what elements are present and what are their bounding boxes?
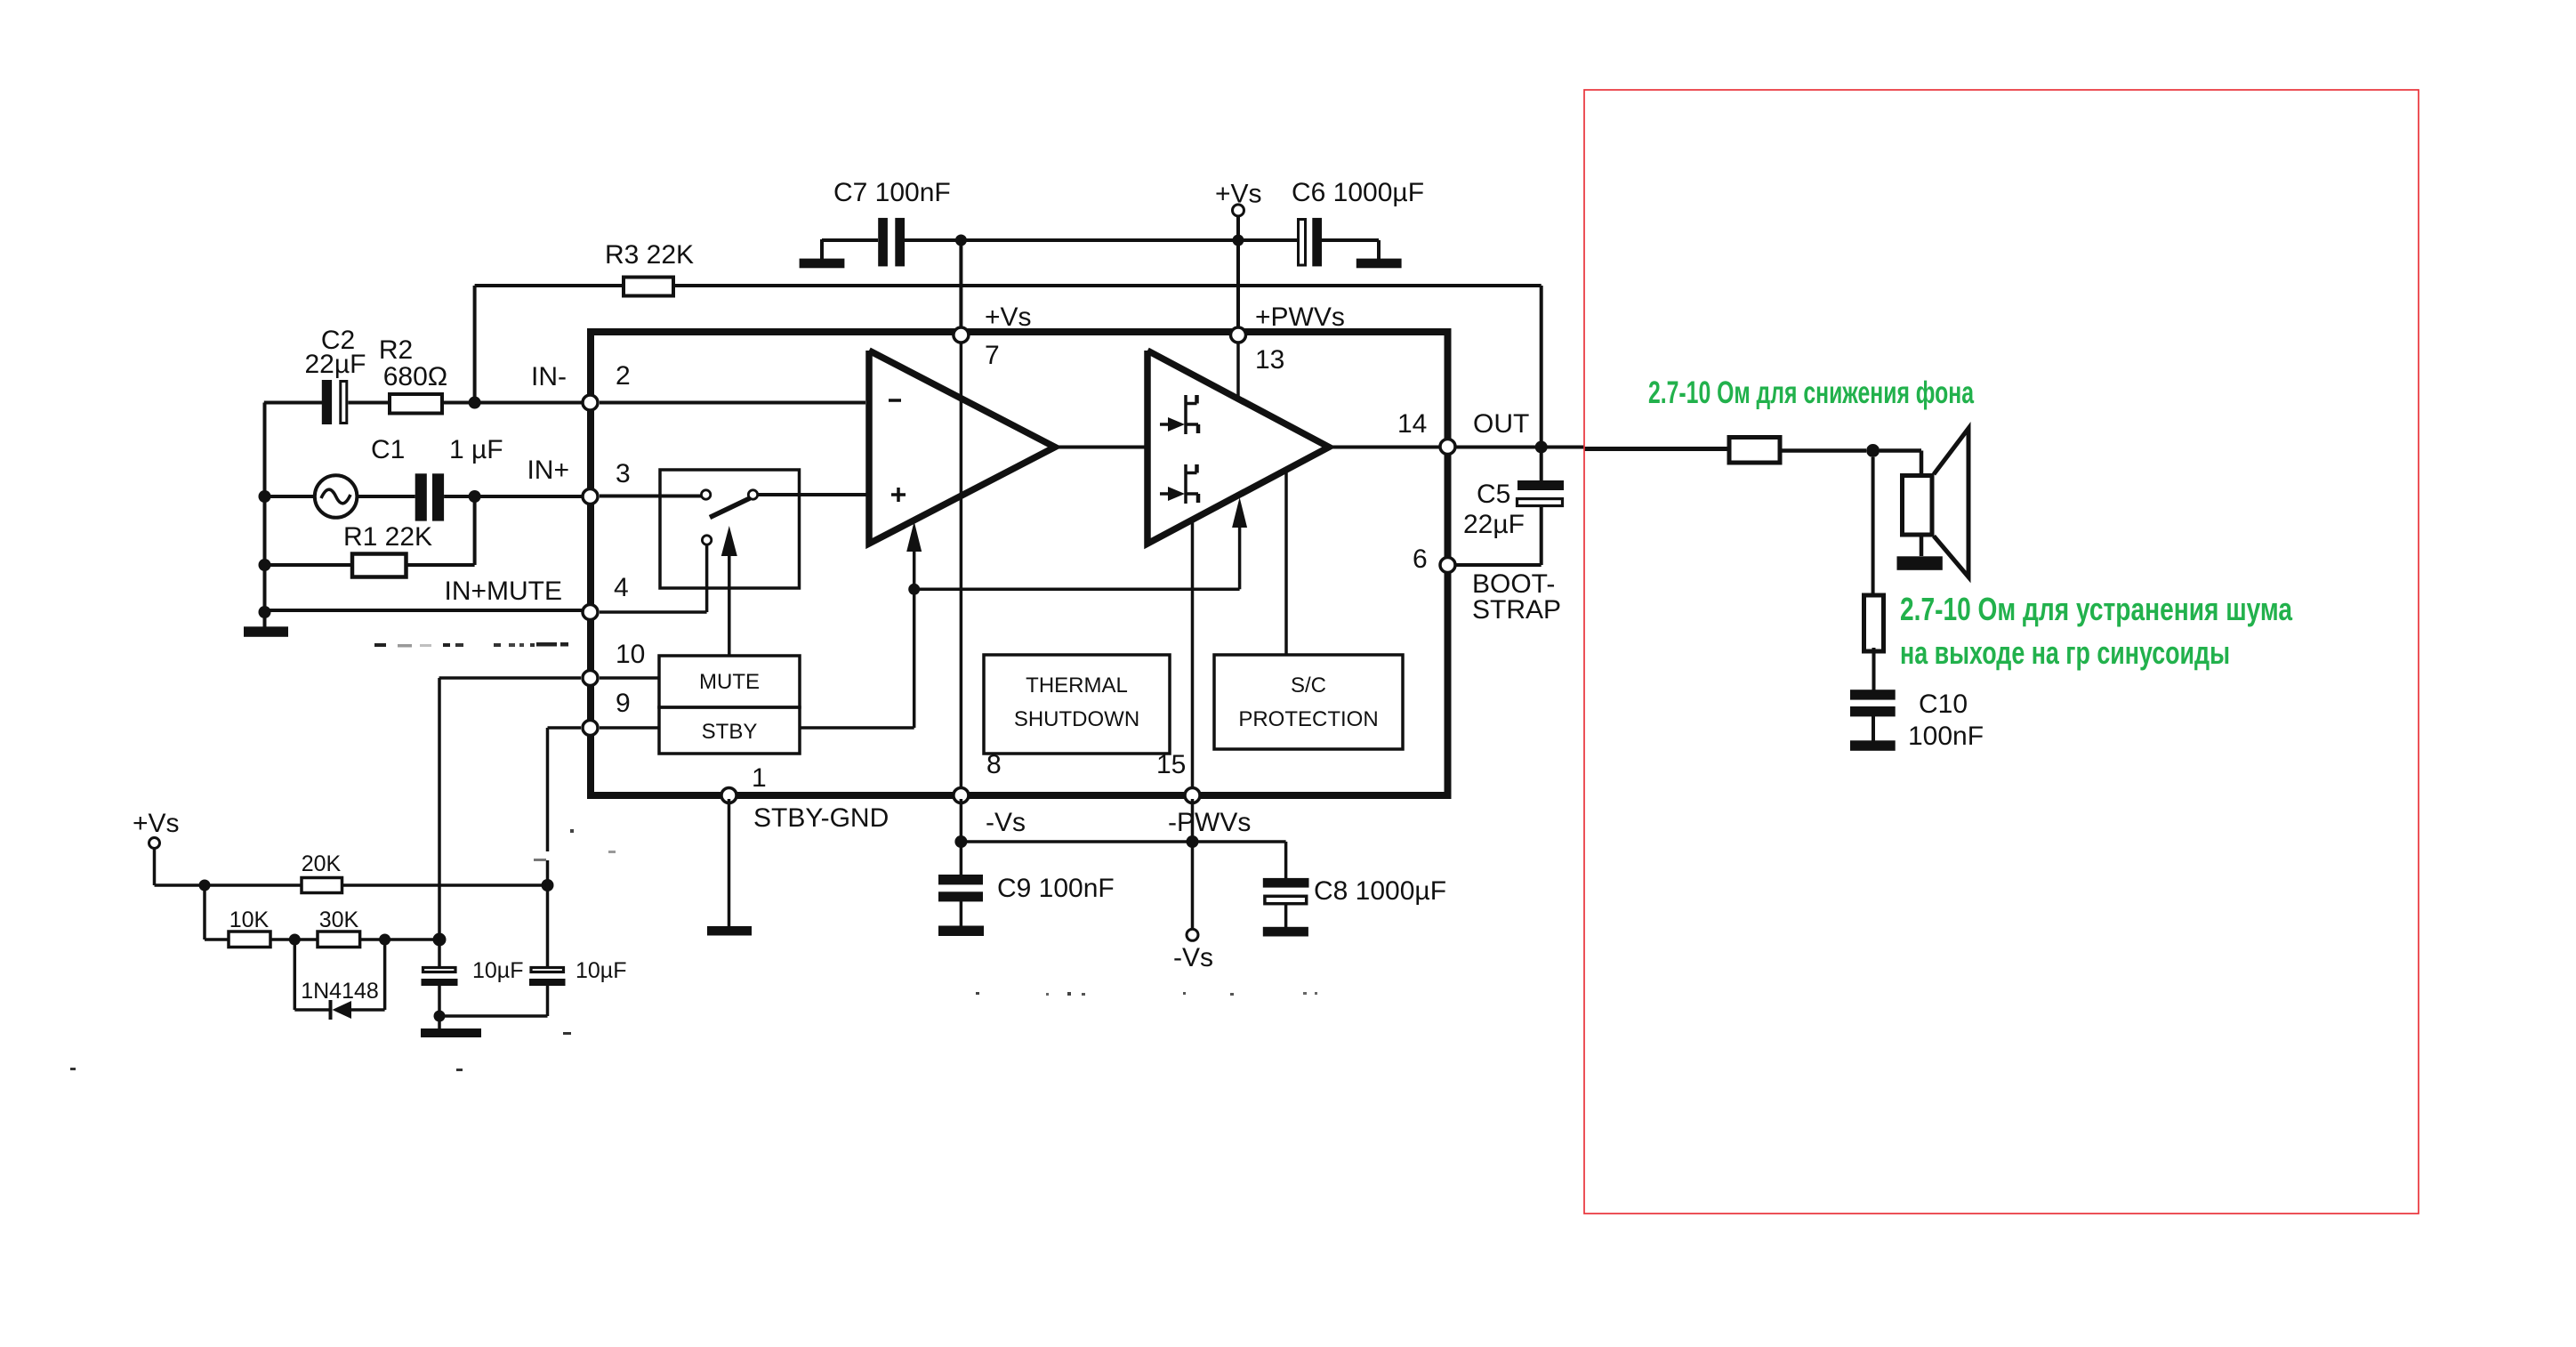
svg-text:2.7-10 Ом для устранения шума: 2.7-10 Ом для устранения шума xyxy=(1900,591,2293,627)
svg-text:S/C: S/C xyxy=(1291,673,1326,698)
svg-text:1: 1 xyxy=(752,763,767,793)
svg-text:R3 22K: R3 22K xyxy=(605,240,694,270)
svg-text:9: 9 xyxy=(616,689,631,718)
svg-text:10µF: 10µF xyxy=(472,958,523,983)
svg-text:22µF: 22µF xyxy=(1463,510,1525,539)
svg-text:MUTE: MUTE xyxy=(699,670,760,694)
svg-text:+PWVs: +PWVs xyxy=(1255,302,1345,332)
svg-text:10: 10 xyxy=(616,640,645,669)
svg-text:+Vs: +Vs xyxy=(985,302,1032,332)
svg-text:2.7-10 Ом для снижения фона: 2.7-10 Ом для снижения фона xyxy=(1648,375,1974,410)
svg-text:OUT: OUT xyxy=(1473,409,1529,439)
svg-text:SHUTDOWN: SHUTDOWN xyxy=(1014,707,1139,731)
svg-text:+Vs: +Vs xyxy=(133,809,180,838)
svg-text:1 µF: 1 µF xyxy=(449,435,503,464)
svg-text:IN+: IN+ xyxy=(527,456,569,485)
svg-text:STRAP: STRAP xyxy=(1472,595,1561,625)
svg-text:10µF: 10µF xyxy=(576,958,626,983)
svg-text:C9 100nF: C9 100nF xyxy=(997,874,1115,903)
svg-text:STBY: STBY xyxy=(702,720,758,744)
svg-text:15: 15 xyxy=(1156,750,1186,779)
svg-text:C1: C1 xyxy=(371,435,405,464)
svg-text:C5: C5 xyxy=(1477,480,1510,509)
svg-text:2: 2 xyxy=(616,361,631,391)
svg-text:680Ω: 680Ω xyxy=(383,362,447,391)
svg-text:THERMAL: THERMAL xyxy=(1026,673,1128,698)
svg-text:-Vs: -Vs xyxy=(986,808,1026,837)
svg-text:C10: C10 xyxy=(1919,690,1968,719)
svg-text:6: 6 xyxy=(1413,544,1428,574)
svg-text:13: 13 xyxy=(1255,345,1284,375)
svg-text:20K: 20K xyxy=(302,851,342,876)
svg-text:3: 3 xyxy=(616,459,631,488)
svg-text:C6 1000µF: C6 1000µF xyxy=(1292,178,1424,207)
svg-text:10K: 10K xyxy=(229,907,270,932)
svg-text:STBY-GND: STBY-GND xyxy=(753,803,889,833)
svg-text:30K: 30K xyxy=(319,907,359,932)
svg-text:-Vs: -Vs xyxy=(1173,943,1213,972)
svg-text:4: 4 xyxy=(614,573,629,602)
svg-text:100nF: 100nF xyxy=(1908,722,1984,751)
svg-text:8: 8 xyxy=(986,750,1002,779)
svg-text:-PWVs: -PWVs xyxy=(1168,808,1251,837)
svg-text:1N4148: 1N4148 xyxy=(301,979,379,1004)
svg-text:+Vs: +Vs xyxy=(1215,180,1262,209)
svg-text:R2: R2 xyxy=(379,335,413,365)
svg-text:IN-: IN- xyxy=(531,362,567,391)
svg-text:на выходе на гр синусоиды: на выходе на гр синусоиды xyxy=(1900,634,2230,671)
svg-text:PROTECTION: PROTECTION xyxy=(1238,707,1378,731)
svg-text:IN+MUTE: IN+MUTE xyxy=(444,577,562,606)
svg-text:R1 22K: R1 22K xyxy=(343,522,432,552)
svg-text:7: 7 xyxy=(985,341,1000,370)
svg-text:14: 14 xyxy=(1397,409,1427,439)
svg-text:22µF: 22µF xyxy=(305,350,366,379)
svg-text:C8 1000µF: C8 1000µF xyxy=(1314,876,1446,906)
svg-text:C7 100nF: C7 100nF xyxy=(833,178,951,207)
